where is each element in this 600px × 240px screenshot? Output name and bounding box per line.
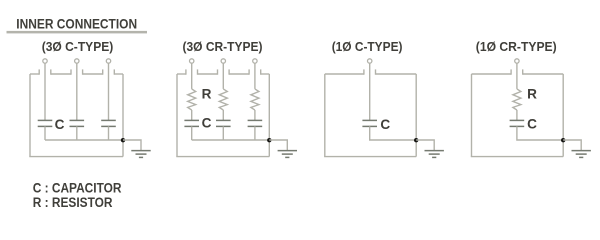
- terminal T1 (1Ø C-TYPE): [368, 59, 372, 63]
- svg-text:(1Ø CR-TYPE): (1Ø CR-TYPE): [476, 39, 557, 54]
- capacitor C (1Ø C-TYPE): [362, 120, 377, 126]
- wire capacitor C1 bottom lead (3Ø C-TYPE): [44, 126, 46, 140]
- label C (3Ø CR-TYPE): [202, 116, 212, 131]
- wire terminal lead 3 (3Ø CR-TYPE): [254, 63, 256, 89]
- legend C : CAPACITOR: [33, 181, 122, 197]
- wire enclosure left edge (1Ø C-TYPE): [324, 74, 326, 157]
- label R (1Ø CR-TYPE): [527, 87, 537, 102]
- terminal T1 (3Ø CR-TYPE): [190, 59, 194, 63]
- junction node (3Ø CR-TYPE): [267, 138, 271, 142]
- capacitor C1 (3Ø C-TYPE): [38, 120, 53, 126]
- wire to ground (1Ø C-TYPE): [416, 140, 434, 150]
- ground (1Ø C-TYPE): [425, 151, 444, 158]
- wire enclosure bottom edge (3Ø CR-TYPE): [176, 156, 269, 158]
- junction node (3Ø C-TYPE): [121, 138, 125, 142]
- label C (1Ø CR-TYPE): [527, 117, 537, 132]
- svg-text:C: C: [380, 117, 390, 132]
- svg-text:C: C: [202, 116, 212, 131]
- terminal T3 (3Ø C-TYPE): [106, 59, 110, 63]
- heading underline: [7, 31, 148, 34]
- junction node (1Ø C-TYPE): [414, 138, 418, 142]
- terminal T1 (3Ø C-TYPE): [43, 59, 47, 63]
- svg-text:R: R: [202, 87, 212, 102]
- wire enclosure bottom edge (1Ø CR-TYPE): [471, 156, 563, 158]
- terminal T2 (3Ø CR-TYPE): [221, 59, 225, 63]
- wire capacitor C3 bottom lead (3Ø CR-TYPE): [254, 126, 256, 140]
- wire capacitor C2 bottom lead (3Ø CR-TYPE): [222, 126, 224, 140]
- svg-text:(3Ø C-TYPE): (3Ø C-TYPE): [42, 39, 114, 54]
- terminal T3 (3Ø CR-TYPE): [253, 59, 257, 63]
- wire enclosure left edge (1Ø CR-TYPE): [471, 74, 473, 157]
- wire terminal lead 2 (3Ø C-TYPE): [76, 63, 78, 120]
- svg-text:C: C: [527, 117, 537, 132]
- wire enclosure bottom edge (3Ø C-TYPE): [29, 156, 123, 158]
- title (1Ø C-TYPE): [332, 39, 403, 54]
- wire enclosure top edge segment 2 (3Ø C-TYPE): [51, 69, 71, 74]
- ground (1Ø CR-TYPE): [572, 151, 591, 158]
- svg-text:(3Ø CR-TYPE): (3Ø CR-TYPE): [183, 39, 263, 54]
- wire capacitor bottom lead to bus (1Ø C-TYPE): [370, 126, 417, 140]
- wire resistor-capacitor link 1 (3Ø CR-TYPE): [191, 110, 193, 120]
- capacitor C2 (3Ø C-TYPE): [70, 120, 85, 126]
- wire terminal lead 3 (3Ø C-TYPE): [108, 63, 110, 120]
- title (3Ø C-TYPE): [42, 39, 114, 54]
- junction node (1Ø CR-TYPE): [561, 138, 565, 142]
- label C (1Ø C-TYPE): [380, 117, 390, 132]
- wire capacitor C1 bottom lead (3Ø CR-TYPE): [191, 126, 193, 140]
- wire enclosure right edge (1Ø CR-TYPE): [562, 74, 564, 157]
- title (1Ø CR-TYPE): [476, 39, 557, 54]
- terminal T1 (1Ø CR-TYPE): [515, 59, 519, 63]
- svg-text:INNER CONNECTION: INNER CONNECTION: [16, 16, 137, 31]
- wire enclosure top edge segment 1 (3Ø CR-TYPE): [177, 69, 186, 74]
- capacitor C3 (3Ø CR-TYPE): [248, 120, 263, 126]
- wire resistor-capacitor link (1Ø CR-TYPE): [516, 110, 518, 120]
- wire enclosure right edge (3Ø CR-TYPE): [268, 74, 270, 157]
- wire to ground (3Ø CR-TYPE): [269, 140, 287, 150]
- legend R : RESISTOR: [33, 195, 113, 211]
- wire enclosure top edge segment 2 (1Ø CR-TYPE): [523, 69, 564, 74]
- heading INNER CONNECTION: [16, 16, 137, 31]
- resistor R (1Ø CR-TYPE): [513, 89, 521, 110]
- ground (3Ø CR-TYPE): [278, 151, 297, 158]
- wire resistor-capacitor link 2 (3Ø CR-TYPE): [222, 110, 224, 120]
- wire enclosure top edge segment 4 (3Ø C-TYPE): [114, 69, 123, 74]
- svg-text:R : RESISTOR: R : RESISTOR: [33, 195, 113, 211]
- wire enclosure bottom edge (1Ø C-TYPE): [324, 156, 416, 158]
- wire enclosure top edge segment 2 (1Ø C-TYPE): [376, 69, 417, 74]
- svg-text:C: C: [55, 117, 65, 132]
- capacitor C3 (3Ø C-TYPE): [101, 120, 116, 126]
- capacitor C2 (3Ø CR-TYPE): [216, 120, 231, 126]
- wire terminal lead (1Ø C-TYPE): [369, 63, 371, 120]
- wire terminal lead 1 (3Ø C-TYPE): [44, 63, 46, 120]
- wire enclosure top edge segment 4 (3Ø CR-TYPE): [261, 69, 270, 74]
- wire enclosure left edge (3Ø CR-TYPE): [176, 74, 178, 157]
- svg-text:R: R: [527, 87, 537, 102]
- wire resistor-capacitor link 3 (3Ø CR-TYPE): [254, 110, 256, 120]
- wire capacitor bottom lead to bus (1Ø CR-TYPE): [517, 126, 563, 140]
- wire enclosure left edge (3Ø C-TYPE): [29, 74, 31, 157]
- wire bottom bus (3Ø CR-TYPE): [192, 139, 270, 141]
- wire enclosure top edge segment 1 (3Ø C-TYPE): [30, 69, 39, 74]
- wire enclosure right edge (3Ø C-TYPE): [122, 74, 124, 157]
- wire enclosure top edge segment 3 (3Ø C-TYPE): [83, 69, 103, 74]
- wire enclosure top edge segment 1 (1Ø CR-TYPE): [472, 69, 512, 74]
- wire capacitor C3 bottom lead (3Ø C-TYPE): [108, 126, 110, 140]
- wire terminal lead (1Ø CR-TYPE): [516, 63, 518, 89]
- wire enclosure top edge segment 3 (3Ø CR-TYPE): [229, 69, 249, 74]
- label R (3Ø CR-TYPE): [202, 87, 212, 102]
- wire to ground (3Ø C-TYPE): [123, 140, 141, 150]
- terminal T2 (3Ø C-TYPE): [75, 59, 79, 63]
- wire capacitor C2 bottom lead (3Ø C-TYPE): [76, 126, 78, 140]
- wire to ground (1Ø CR-TYPE): [563, 140, 581, 150]
- resistor R2 (3Ø CR-TYPE): [219, 89, 227, 110]
- wire enclosure right edge (1Ø C-TYPE): [415, 74, 417, 157]
- wire enclosure top edge segment 2 (3Ø CR-TYPE): [198, 69, 218, 74]
- capacitor C (1Ø CR-TYPE): [510, 120, 525, 126]
- wire terminal lead 2 (3Ø CR-TYPE): [222, 63, 224, 89]
- svg-text:(1Ø C-TYPE): (1Ø C-TYPE): [332, 39, 403, 54]
- wire enclosure top edge segment 1 (1Ø C-TYPE): [325, 69, 364, 74]
- capacitor C1 (3Ø CR-TYPE): [184, 120, 199, 126]
- resistor R1 (3Ø CR-TYPE): [188, 89, 196, 110]
- resistor R3 (3Ø CR-TYPE): [251, 89, 259, 110]
- title (3Ø CR-TYPE): [183, 39, 263, 54]
- wire bottom bus (3Ø C-TYPE): [45, 139, 123, 141]
- ground (3Ø C-TYPE): [131, 151, 150, 158]
- label C (3Ø C-TYPE): [55, 117, 65, 132]
- wire terminal lead 1 (3Ø CR-TYPE): [191, 63, 193, 89]
